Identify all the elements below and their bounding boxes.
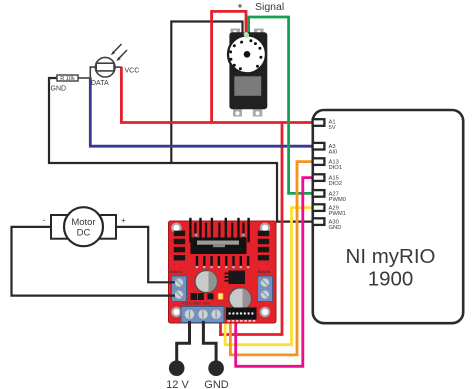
pin A3 bbox=[313, 143, 325, 150]
svg-text:Signal: Signal bbox=[255, 1, 284, 13]
capacitor C2 electrolytic bbox=[229, 288, 251, 310]
wire orange to A13 bbox=[230, 162, 314, 355]
servo top tab right bbox=[254, 29, 264, 37]
photoresistor LDR1 bbox=[90, 44, 127, 78]
motor driver board U2 (L298N) bbox=[169, 218, 277, 323]
wire magenta stub under board bbox=[234, 308, 237, 334]
wire black motor - bbox=[12, 227, 176, 296]
DC motor M2 bbox=[51, 207, 116, 246]
svg-text:AI0: AI0 bbox=[329, 150, 338, 156]
NI myRIO 1900 U1 bbox=[313, 110, 464, 323]
wire black GND rail to A30 bbox=[49, 78, 314, 222]
light arrow 1 bbox=[114, 44, 122, 52]
pin A13 bbox=[313, 158, 325, 165]
capacitor C1 electrolytic bbox=[195, 271, 217, 293]
pin A15 bbox=[313, 174, 325, 181]
light arrow 2 bbox=[119, 50, 127, 58]
SMD parts right column bbox=[258, 231, 269, 261]
svg-text:5V: 5V bbox=[329, 125, 336, 131]
chip leads row below heatsink bbox=[196, 256, 249, 266]
LDR left lead bbox=[90, 67, 96, 77]
svg-text:+: + bbox=[121, 216, 126, 225]
svg-text:GND: GND bbox=[329, 225, 342, 231]
svg-text:12 V: 12 V bbox=[166, 379, 189, 389]
wire yellow stub under board bbox=[224, 308, 227, 334]
servo label plate bbox=[234, 76, 261, 96]
wire red drop to driver board bbox=[219, 123, 282, 335]
servo wire glow over disc edge bbox=[244, 33, 249, 38]
wire black 12V supply bbox=[177, 321, 190, 362]
servo bottom tab left bbox=[233, 108, 242, 117]
svg-text:PWM0: PWM0 bbox=[329, 197, 346, 203]
svg-text:MotorA: MotorA bbox=[170, 270, 183, 274]
SMD parts left column bbox=[174, 231, 185, 261]
svg-text:1900: 1900 bbox=[368, 268, 414, 291]
header pins sticking above board bbox=[189, 218, 250, 243]
wire black motor + bbox=[116, 227, 175, 282]
terminal dot 12V bbox=[169, 360, 185, 376]
svg-text:DIO2: DIO2 bbox=[329, 181, 343, 187]
servo horn disc bbox=[228, 35, 266, 73]
svg-text:+: + bbox=[238, 1, 243, 11]
mounting hole bottom-left bbox=[172, 308, 180, 316]
svg-text:MotorB: MotorB bbox=[258, 270, 271, 274]
regulator chip U3 bbox=[229, 271, 246, 285]
svg-text:DC: DC bbox=[77, 228, 91, 239]
control pin header 8-pin bbox=[226, 308, 257, 322]
pin A30 bbox=[313, 218, 325, 225]
svg-text:NI myRIO: NI myRIO bbox=[346, 245, 436, 268]
svg-text:DIO1: DIO1 bbox=[329, 165, 343, 171]
pin A29 bbox=[313, 204, 325, 211]
wire orange stub under board bbox=[229, 308, 232, 334]
svg-text:+12V GND +5V: +12V GND +5V bbox=[182, 302, 210, 306]
servo top tab left bbox=[231, 29, 241, 37]
servo wire glow bbox=[243, 32, 248, 37]
servo M1 bbox=[228, 29, 267, 117]
wire green servo signal to A27 bbox=[249, 17, 314, 193]
svg-text:PWM1: PWM1 bbox=[329, 211, 346, 217]
svg-text:DATA: DATA bbox=[91, 80, 109, 87]
svg-text:GND: GND bbox=[204, 379, 229, 389]
screw terminal Motor B bbox=[258, 276, 273, 302]
jumper J1 bbox=[191, 293, 198, 300]
svg-text:GND: GND bbox=[51, 86, 67, 93]
wire red VCC rail to A1 bbox=[121, 67, 314, 123]
svg-text:Motor: Motor bbox=[71, 217, 95, 228]
heatsink bar of L298 chip bbox=[191, 238, 247, 255]
svg-text:-: - bbox=[43, 216, 46, 225]
servo body bbox=[229, 32, 267, 109]
wire black GND supply bbox=[203, 321, 216, 362]
resistor R1 10k bbox=[57, 75, 90, 82]
wire red +12V drop under board (from header to supply loop) bbox=[219, 308, 222, 336]
pin A1 bbox=[313, 119, 325, 126]
jumper J3 bbox=[208, 293, 214, 299]
wire yellow to A29 bbox=[225, 208, 314, 345]
terminal dot GND bbox=[208, 360, 224, 376]
svg-text:VCC: VCC bbox=[125, 68, 140, 75]
mounting hole bottom-right bbox=[261, 308, 269, 316]
jumper J2 bbox=[198, 293, 204, 300]
LDR right lead bbox=[115, 66, 122, 68]
pin A27 bbox=[313, 190, 325, 197]
svg-text:R 10k: R 10k bbox=[60, 76, 75, 82]
mounting hole top-right bbox=[261, 224, 269, 232]
LED D1 yellow bbox=[218, 293, 223, 299]
servo bottom tab right bbox=[253, 108, 262, 117]
wire magenta to A15 bbox=[236, 178, 314, 367]
wire red servo + bbox=[212, 11, 246, 122]
wire black servo ground bbox=[171, 22, 242, 164]
screw terminal power 3-pin bbox=[181, 307, 224, 323]
screw terminal Motor A bbox=[172, 276, 187, 302]
mounting hole top-left bbox=[172, 224, 180, 232]
wire blue DATA to A3 bbox=[90, 78, 314, 147]
